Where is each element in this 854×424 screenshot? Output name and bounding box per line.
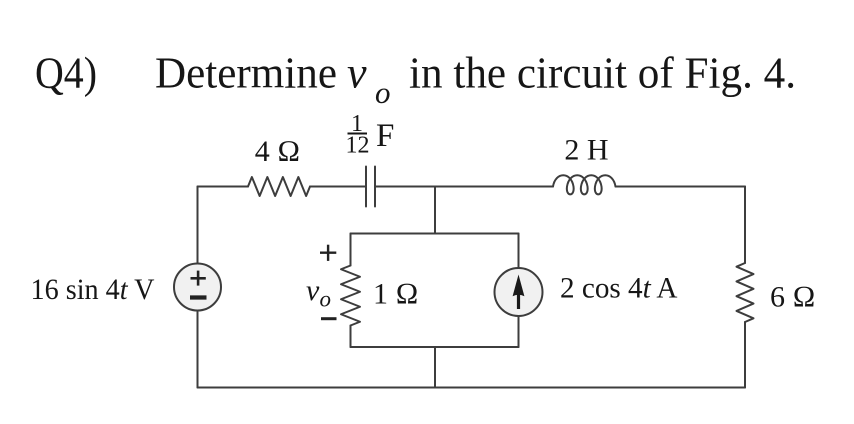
svg-text:12: 12 bbox=[346, 133, 370, 159]
svg-text:v: v bbox=[306, 274, 320, 307]
svg-text:4 Ω: 4 Ω bbox=[255, 135, 301, 168]
svg-text:16 sin 4t V: 16 sin 4t V bbox=[31, 273, 155, 306]
svg-text:o: o bbox=[375, 75, 391, 110]
svg-text:v: v bbox=[347, 49, 367, 98]
svg-text:Determine: Determine bbox=[155, 49, 337, 98]
svg-text:2 H: 2 H bbox=[564, 134, 608, 167]
svg-text:Q4): Q4) bbox=[35, 49, 97, 98]
svg-text:2 cos 4t A: 2 cos 4t A bbox=[560, 272, 678, 305]
svg-text:in the circuit of Fig. 4.: in the circuit of Fig. 4. bbox=[409, 49, 796, 98]
svg-text:1 Ω: 1 Ω bbox=[373, 278, 419, 311]
svg-text:o: o bbox=[320, 287, 332, 312]
svg-text:F: F bbox=[376, 118, 394, 154]
svg-text:6 Ω: 6 Ω bbox=[770, 281, 816, 314]
